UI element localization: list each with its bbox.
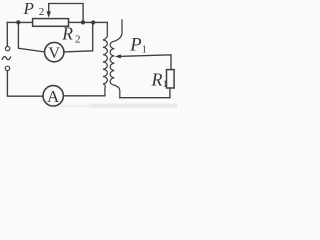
AC source vertical to bottom corner bbox=[7, 71, 43, 97]
wire top left horizontal bbox=[7, 21, 32, 23]
AC terminal top bbox=[5, 46, 9, 50]
svg-text:A: A bbox=[47, 87, 60, 106]
wire ammeter right to transformer primary bbox=[64, 95, 105, 97]
svg-text:2: 2 bbox=[39, 6, 45, 18]
svg-text:2: 2 bbox=[75, 34, 81, 46]
ammeter U-A circle bbox=[43, 86, 63, 106]
svg-text:R: R bbox=[61, 24, 73, 44]
wire voltmeter right branch bbox=[64, 23, 93, 52]
junction dot wiper bbox=[81, 20, 85, 24]
resistor R1 box bbox=[167, 70, 175, 88]
AC tilde symbol bbox=[2, 56, 11, 60]
wire R1 bottom bbox=[169, 88, 171, 98]
AC terminal bottom bbox=[5, 66, 9, 70]
svg-text:P: P bbox=[23, 0, 34, 18]
paper background bbox=[0, 0, 177, 112]
svg-text:R: R bbox=[151, 69, 163, 89]
resistor R2 box bbox=[33, 19, 69, 27]
wire voltmeter left branch bbox=[18, 22, 44, 52]
wire tap arrow line to R1 bbox=[120, 55, 171, 70]
transformer primary coil bbox=[103, 22, 107, 95]
wire bottom right loop bbox=[120, 97, 170, 99]
rheostat wiper bar P2 bbox=[49, 4, 83, 21]
junction dot voltmeter right bbox=[91, 20, 95, 24]
wire top right of R2 box to primary bbox=[69, 21, 108, 23]
svg-text:1: 1 bbox=[142, 45, 147, 56]
transformer secondary coil bbox=[110, 20, 122, 98]
svg-text:1: 1 bbox=[163, 80, 168, 90]
junction dot left bbox=[16, 20, 20, 24]
tap arrowhead P1 bbox=[115, 54, 121, 58]
svg-text:P: P bbox=[129, 36, 141, 56]
scan shadow streak bottom bbox=[88, 104, 177, 108]
wire top left corner drop to AC terminal bbox=[6, 22, 8, 46]
wiper arrowhead bbox=[47, 11, 51, 17]
voltmeter U-V circle bbox=[45, 42, 64, 61]
svg-text:V: V bbox=[48, 45, 60, 62]
